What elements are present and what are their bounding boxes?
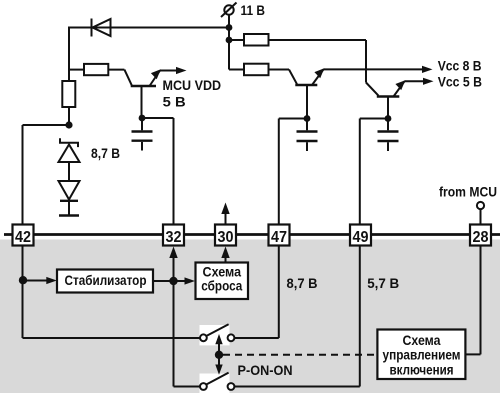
svg-text:сброса: сброса bbox=[201, 279, 242, 294]
svg-text:включения: включения bbox=[390, 363, 454, 378]
svg-text:5,7 В: 5,7 В bbox=[367, 275, 399, 291]
svg-text:Схема: Схема bbox=[403, 333, 441, 348]
svg-text:32: 32 bbox=[166, 229, 182, 246]
svg-text:8,7 В: 8,7 В bbox=[287, 275, 318, 291]
svg-text:49: 49 bbox=[353, 229, 369, 246]
svg-text:P-ON-ON: P-ON-ON bbox=[238, 362, 293, 378]
svg-text:28: 28 bbox=[473, 229, 489, 246]
svg-text:Vcc 5 В: Vcc 5 В bbox=[438, 73, 482, 89]
svg-text:5 В: 5 В bbox=[163, 94, 186, 110]
svg-text:управлением: управлением bbox=[383, 348, 461, 363]
svg-text:from MCU: from MCU bbox=[439, 184, 497, 200]
svg-text:Стабилизатор: Стабилизатор bbox=[65, 273, 147, 288]
svg-text:Схема: Схема bbox=[203, 264, 242, 279]
svg-text:MCU VDD: MCU VDD bbox=[163, 77, 222, 93]
svg-text:42: 42 bbox=[15, 229, 31, 246]
svg-text:30: 30 bbox=[218, 229, 234, 246]
svg-text:Vcc 8 В: Vcc 8 В bbox=[438, 58, 482, 74]
svg-text:47: 47 bbox=[271, 229, 287, 246]
svg-text:8,7 В: 8,7 В bbox=[91, 145, 120, 161]
svg-text:11 В: 11 В bbox=[241, 2, 266, 18]
